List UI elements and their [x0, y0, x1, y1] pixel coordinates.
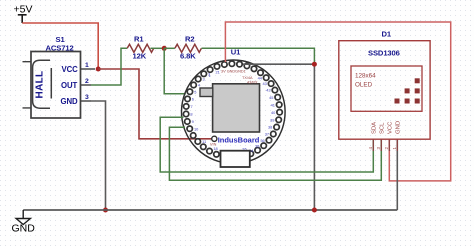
- node junction R1/R2: [162, 46, 167, 51]
- display D1 outline: [339, 41, 430, 140]
- svg-text:1: 1: [209, 73, 211, 78]
- wire U1 pad8 to D1 SDA (green): [160, 117, 373, 172]
- wire OUT to R1 (green): [91, 48, 127, 85]
- svg-text:43: 43: [263, 81, 267, 86]
- svg-text:GND: GND: [396, 121, 402, 134]
- svg-text:36: 36: [260, 138, 264, 143]
- pin GND stub: [81, 100, 92, 102]
- ground symbol GND: [12, 210, 36, 235]
- svg-text:R1: R1: [134, 35, 144, 44]
- svg-text:VIN: VIN: [210, 143, 217, 147]
- svg-text:R2: R2: [185, 35, 195, 44]
- GND rail wire: [23, 209, 397, 211]
- U1 VIN pad: [212, 136, 217, 141]
- hall sensor S1 body: [31, 52, 81, 119]
- svg-text:11: 11: [202, 139, 206, 144]
- svg-text:6: 6: [192, 97, 194, 102]
- svg-text:42: 42: [266, 88, 270, 93]
- pin OUT stub: [81, 84, 92, 86]
- svg-text:41: 41: [271, 102, 275, 107]
- U1 board outline: [182, 60, 286, 164]
- svg-text:OLED: OLED: [355, 82, 373, 89]
- D1 pixel squares: [395, 78, 420, 103]
- wire GND pin down to rail (gray): [91, 101, 106, 210]
- svg-text:38: 38: [268, 125, 272, 130]
- resistor R2: [175, 44, 201, 52]
- svg-text:IndusBoard: IndusBoard: [218, 136, 260, 145]
- svg-text:D1: D1: [382, 30, 392, 39]
- wire D1 VCC to U1 3V pad (red): [225, 22, 450, 181]
- svg-text:TX/4A: TX/4A: [242, 76, 253, 80]
- svg-text:37: 37: [265, 132, 269, 137]
- svg-text:3: 3: [85, 94, 89, 101]
- svg-text:+5V: +5V: [14, 4, 33, 16]
- svg-text:GND: GND: [12, 223, 36, 235]
- svg-text:VCC: VCC: [388, 121, 394, 134]
- svg-text:128x64: 128x64: [355, 73, 376, 80]
- wire R2 right to GND net (green): [202, 48, 315, 62]
- wire junction to R2 (green): [164, 47, 175, 49]
- node junction on GND rail left: [103, 208, 108, 213]
- wire VCC to U1 VIN (dark red): [98, 69, 212, 139]
- svg-text:45: 45: [269, 95, 273, 100]
- svg-text:GND: GND: [61, 97, 78, 106]
- node junction green/gray: [312, 62, 317, 67]
- wire U1 GND0 pad to GND rail (gray): [243, 64, 314, 210]
- svg-text:SSD1306: SSD1306: [368, 49, 400, 58]
- node junction on GND rail right: [312, 208, 317, 213]
- svg-text:21: 21: [216, 70, 220, 75]
- svg-text:9: 9: [192, 119, 194, 124]
- node junction at VCC pin: [96, 67, 101, 72]
- D1 screen rect: [351, 66, 422, 111]
- svg-text:3: 3: [203, 77, 205, 82]
- svg-text:OUT: OUT: [61, 81, 77, 90]
- U1 pad ring: [183, 61, 282, 157]
- svg-text:12K: 12K: [133, 52, 147, 61]
- resistor R1: [127, 44, 153, 52]
- wire D1 GND down to rail (gray): [396, 140, 398, 210]
- U1 bottom connector: [221, 151, 250, 167]
- svg-text:3V GNDGND1: 3V GNDGND1: [221, 70, 246, 74]
- svg-text:ACS712: ACS712: [46, 44, 74, 53]
- svg-text:7: 7: [191, 104, 193, 109]
- wire +5V to VCC (red): [22, 23, 98, 69]
- svg-text:VCC: VCC: [62, 65, 79, 74]
- svg-text:SCL: SCL: [380, 122, 386, 134]
- U1 pad numbers: [190, 70, 276, 153]
- svg-text:5: 5: [194, 89, 196, 94]
- S1 left pin stubs: [23, 62, 32, 108]
- wire junction down to U1 pad 5 (green): [164, 48, 186, 94]
- svg-text:HALL: HALL: [34, 71, 45, 99]
- wire R1 to junction (green): [151, 47, 165, 49]
- U1 left small chip: [200, 88, 213, 97]
- pin VCC stub: [81, 68, 96, 70]
- svg-text:SDA: SDA: [372, 122, 378, 134]
- svg-text:43/RX: 43/RX: [247, 81, 258, 85]
- svg-text:2: 2: [85, 78, 89, 85]
- svg-text:39: 39: [270, 117, 274, 122]
- svg-text:1: 1: [85, 62, 89, 69]
- svg-text:6.8K: 6.8K: [180, 52, 196, 61]
- svg-text:18: 18: [213, 146, 217, 151]
- D1 pin stubs: [373, 140, 397, 151]
- U1 center chip: [213, 84, 260, 132]
- svg-text:U1: U1: [231, 48, 241, 57]
- wire U1 pad9 to D1 SCL (green): [169, 127, 381, 180]
- svg-text:8: 8: [190, 112, 192, 117]
- power flag +5V: [14, 4, 33, 24]
